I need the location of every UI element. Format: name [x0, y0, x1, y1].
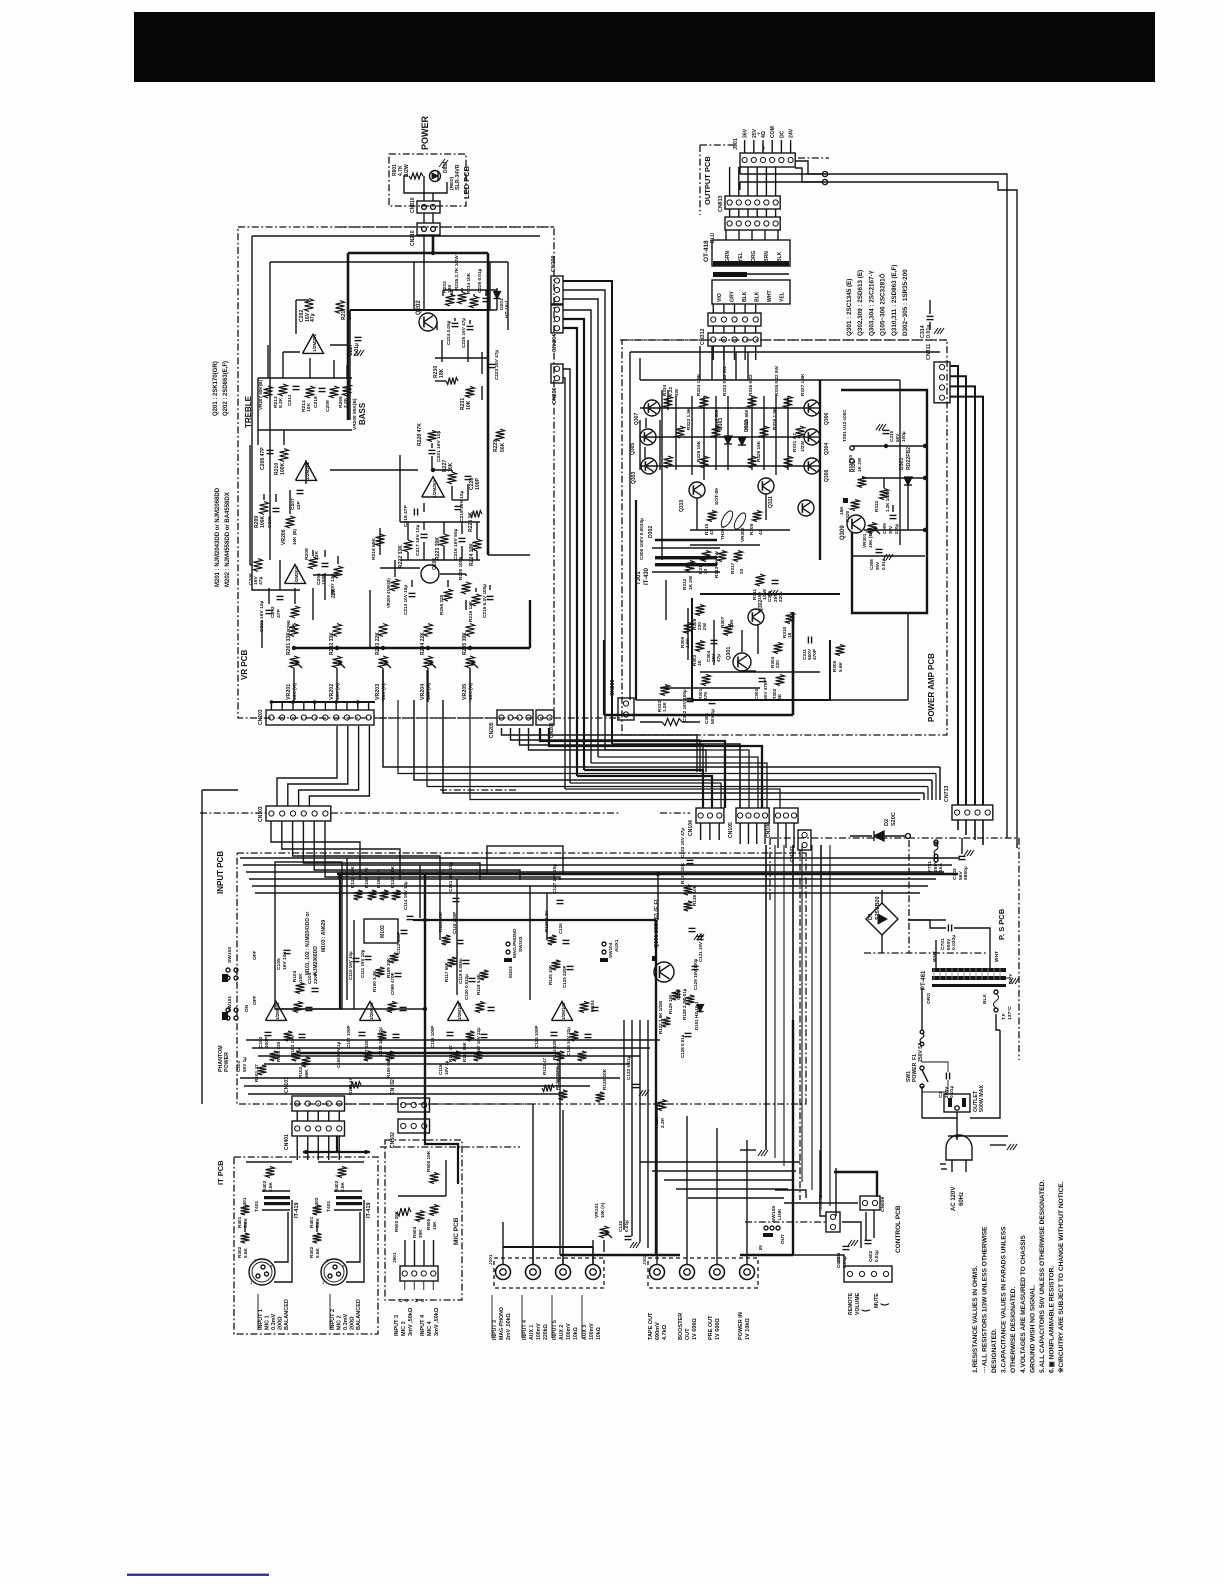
svg-text:VR208 50K(B): VR208 50K(B) [352, 398, 358, 430]
svg-text:220µ: 220µ [778, 591, 783, 602]
svg-text:GRN: GRN [725, 251, 731, 263]
svg-text:C305: C305 [767, 590, 772, 602]
svg-text:10kΩ: 10kΩ [596, 1327, 602, 1340]
svg-text:CN312: CN312 [700, 328, 706, 345]
svg-text:100µ: 100µ [901, 431, 906, 442]
svg-text:IT-430: IT-430 [644, 567, 650, 585]
svg-text:10K (A): 10K (A) [292, 683, 298, 700]
svg-text:1.2K 1/2W: 1.2K 1/2W [885, 490, 890, 512]
svg-text:C101: C101 [236, 1060, 241, 1072]
svg-text:C112 680P: C112 680P [396, 932, 401, 954]
svg-text:J901: J901 [733, 138, 739, 150]
svg-text:C105: C105 [276, 958, 282, 970]
svg-text:R402: R402 [237, 1246, 242, 1258]
svg-text:18: 18 [787, 632, 792, 638]
svg-text:DC: DC [779, 130, 785, 138]
svg-text:22µ: 22µ [296, 1048, 301, 1056]
svg-text:ON: ON [244, 1004, 249, 1012]
svg-text:R305: R305 [832, 660, 837, 672]
svg-text:R323 1.5K: R323 1.5K [686, 407, 691, 430]
svg-text:CN103: CN103 [258, 806, 264, 822]
svg-text:CN206: CN206 [552, 387, 558, 404]
svg-text:R222 33K: R222 33K [398, 545, 404, 568]
svg-text:137°C: 137°C [1007, 1006, 1013, 1020]
svg-text:R127 1.8K 1/2W: R127 1.8K 1/2W [658, 1000, 663, 1034]
svg-text:10K: 10K [298, 973, 303, 982]
svg-text:100K: 100K [280, 463, 286, 475]
svg-text:C103 16V: C103 16V [290, 1034, 295, 1056]
svg-text:SW102: SW102 [227, 947, 233, 963]
svg-text:RD22FB2: RD22FB2 [906, 447, 912, 470]
svg-text:CN106: CN106 [766, 822, 772, 838]
svg-text:OFF: OFF [252, 995, 257, 1005]
svg-text:10kΩ: 10kΩ [573, 1327, 579, 1340]
svg-text:BLK: BLK [755, 291, 761, 302]
svg-text:Q310,311 : 2SD863 (E,F): Q310,311 : 2SD863 (E,F) [891, 265, 898, 336]
svg-text:1K 2W: 1K 2W [688, 575, 693, 590]
svg-text:R331 4.7: R331 4.7 [792, 433, 797, 452]
svg-text:VR205: VR205 [462, 684, 468, 700]
svg-text:C223 16V 47µ: C223 16V 47µ [494, 350, 499, 380]
svg-text:R321: R321 [851, 460, 856, 472]
svg-text:POWER: POWER [420, 115, 430, 150]
svg-text:C211: C211 [287, 394, 293, 406]
svg-text:CN101: CN101 [284, 1077, 290, 1093]
svg-text:5.ALL CAPACITORS 50V UNLESS OT: 5.ALL CAPACITORS 50V UNLESS OTHERWISE DE… [1039, 1180, 1046, 1373]
svg-text:CN810: CN810 [410, 197, 416, 213]
svg-text:VR204: VR204 [420, 684, 426, 700]
svg-text:15K: 15K [839, 506, 844, 515]
svg-text:R103 220: R103 220 [276, 1041, 281, 1062]
svg-text:C121 16V 10µ: C121 16V 10µ [448, 862, 453, 892]
svg-text:AUX 3: AUX 3 [582, 1325, 588, 1340]
svg-text:AUX 2: AUX 2 [559, 1325, 565, 1340]
svg-text:OFF: OFF [252, 950, 257, 960]
svg-text:3mV ,50kΩ: 3mV ,50kΩ [434, 1307, 440, 1336]
svg-text:Q309: Q309 [840, 525, 846, 540]
svg-text:C701: C701 [940, 938, 946, 950]
svg-text:VR203: VR203 [375, 684, 381, 700]
svg-text:10K (B): 10K (B) [292, 528, 297, 545]
svg-text:R131 10K: R131 10K [680, 862, 685, 884]
svg-text:5W: 5W [674, 388, 679, 396]
svg-text:OUTPUT PCB: OUTPUT PCB [703, 156, 712, 205]
svg-text:470P: 470P [812, 649, 817, 660]
svg-text:T.F: T.F [1001, 1013, 1007, 1020]
svg-text:SW103: SW103 [518, 936, 523, 952]
svg-text:R402: R402 [309, 1246, 314, 1258]
svg-text:5.6K: 5.6K [243, 1247, 248, 1258]
svg-text:R113 47: R113 47 [448, 1045, 453, 1062]
svg-text:50V 1µ: 50V 1µ [242, 1057, 247, 1072]
svg-text:MIC PCB: MIC PCB [453, 1217, 460, 1245]
svg-text:IT PCB: IT PCB [216, 1160, 225, 1185]
svg-text:BALANCED: BALANCED [356, 1299, 362, 1330]
svg-text:POWER: POWER [224, 1052, 230, 1072]
svg-text:C118 220P: C118 220P [452, 912, 457, 934]
svg-text:R329 15K: R329 15K [756, 440, 761, 462]
svg-text:BRN: BRN [764, 251, 770, 262]
svg-text:C102: C102 [258, 1036, 263, 1048]
svg-text:10K: 10K [466, 400, 472, 410]
svg-text:D2: D2 [884, 819, 890, 826]
svg-text:Q301: Q301 [726, 647, 732, 660]
svg-text:100K: 100K [260, 516, 266, 528]
svg-text:VR301: VR301 [862, 533, 867, 548]
svg-text:C602: C602 [868, 1250, 873, 1262]
svg-text:50V 1µ: 50V 1µ [710, 709, 715, 724]
svg-text:C308: C308 [869, 559, 874, 570]
svg-text:0.01µ: 0.01µ [874, 1250, 879, 1262]
svg-text:C205: C205 [267, 516, 273, 528]
svg-text:50V: 50V [895, 433, 900, 442]
svg-text:R336 0.22: R336 0.22 [748, 374, 753, 396]
svg-text:1K 2W: 1K 2W [857, 457, 862, 472]
svg-text:TH301: TH301 [720, 526, 725, 540]
svg-text:10K (B): 10K (B) [868, 531, 873, 548]
svg-text:J401: J401 [242, 1197, 247, 1208]
svg-text:C111 16V 10µ: C111 16V 10µ [360, 949, 365, 978]
svg-text:OUT: OUT [685, 1328, 691, 1340]
svg-text:D302~305 : 1SR35-200: D302~305 : 1SR35-200 [902, 269, 909, 336]
svg-text:R403: R403 [334, 1180, 339, 1192]
svg-text:M202 : NJM4558DD or BA4558DX: M202 : NJM4558DD or BA4558DX [225, 492, 231, 587]
svg-text:CN401: CN401 [284, 1134, 290, 1150]
svg-text:Q305: Q305 [630, 443, 636, 455]
svg-text:CN607: CN607 [818, 1194, 824, 1210]
svg-text:200Ω: 200Ω [278, 1316, 284, 1330]
svg-text:R234 10K: R234 10K [466, 272, 471, 294]
svg-text:VR207 50K(B): VR207 50K(B) [258, 379, 263, 410]
svg-text:50V 470P: 50V 470P [763, 679, 768, 700]
svg-text:R223 39K: R223 39K [435, 537, 441, 560]
svg-text:C115: C115 [438, 1064, 443, 1075]
svg-text:1V 600Ω: 1V 600Ω [692, 1318, 698, 1340]
svg-text:R114 56K: R114 56K [462, 1041, 467, 1062]
svg-text:C208 47P: C208 47P [260, 447, 266, 470]
svg-text:R104: R104 [292, 970, 297, 982]
svg-text:CN713: CN713 [944, 785, 950, 802]
svg-text:15A: 15A [938, 863, 944, 872]
svg-text:TAPE OUT: TAPE OUT [648, 1312, 654, 1340]
svg-text:Q105~306 2SC3281Ō: Q105~306 2SC3281Ō [879, 273, 887, 336]
svg-text:R312: R312 [682, 578, 687, 590]
svg-text:MIC 3: MIC 3 [401, 1321, 407, 1336]
svg-text:VR PCB: VR PCB [240, 650, 249, 680]
svg-text:C292: C292 [270, 606, 276, 618]
svg-text:OUT: OUT [780, 1234, 785, 1244]
svg-text:BLK: BLK [982, 993, 988, 1004]
svg-text:C128 0.01µ: C128 0.01µ [680, 1034, 685, 1058]
svg-text:R504: R504 [412, 1226, 417, 1238]
svg-text:···ALL RESISTORS 1/3W UNLESS O: ···ALL RESISTORS 1/3W UNLESS OTHERWISE [982, 1226, 989, 1373]
svg-text:(: ( [879, 1303, 889, 1306]
svg-text:MIC 2: MIC 2 [337, 1315, 343, 1330]
svg-text:IT-419: IT-419 [366, 1202, 372, 1218]
svg-text:SLR-34VR: SLR-34VR [455, 164, 461, 190]
svg-text:220µ: 220µ [894, 523, 899, 534]
svg-text:C131 16V 47µ: C131 16V 47µ [698, 933, 703, 962]
svg-text:0.033µ: 0.033µ [951, 935, 957, 950]
svg-text:C133 16V 47µ: C133 16V 47µ [680, 828, 685, 858]
svg-text:1/2M102: 1/2M102 [561, 1002, 566, 1020]
svg-text:Q202: Q202 [416, 300, 422, 315]
svg-text:1.RESISTANCE VALUES IN OHMS.: 1.RESISTANCE VALUES IN OHMS. [972, 1265, 979, 1373]
svg-text:1/2M201: 1/2M201 [294, 566, 299, 585]
svg-text:POWER IN: POWER IN [738, 1312, 744, 1340]
svg-text:MAG·PHONO: MAG·PHONO [499, 1307, 505, 1340]
svg-text:R121 220K: R121 220K [555, 1066, 560, 1090]
svg-text:C216 16V 50µ: C216 16V 50µ [453, 528, 459, 560]
svg-text:VR201: VR201 [286, 684, 292, 700]
svg-text:CONTROL PCB: CONTROL PCB [895, 1205, 902, 1253]
svg-text:M103 : AN629: M103 : AN629 [321, 919, 327, 952]
svg-text:R325 15K: R325 15K [696, 440, 701, 462]
svg-text:R307: R307 [720, 616, 725, 628]
svg-text:R120 10K: R120 10K [602, 1068, 607, 1090]
svg-text:YEL: YEL [780, 292, 786, 302]
svg-text:R401: R401 [237, 1216, 242, 1228]
svg-text:33: 33 [703, 568, 708, 574]
svg-text:ORG: ORG [926, 993, 932, 1004]
svg-text:5.6K: 5.6K [315, 1247, 320, 1258]
svg-text:R235 2.7K 1/2W: R235 2.7K 1/2W [454, 255, 459, 290]
svg-text:C099 470P: C099 470P [390, 972, 395, 995]
svg-text:WHT: WHT [767, 290, 773, 302]
svg-text:M101, 102 : NJM2043DD or: M101, 102 : NJM2043DD or [305, 912, 311, 975]
svg-text:1K: 1K [697, 659, 702, 666]
svg-text:INPUT 5: INPUT 5 [552, 1320, 558, 1340]
svg-text:15K: 15K [432, 1221, 437, 1230]
svg-text:3mV ,50kΩ: 3mV ,50kΩ [408, 1307, 414, 1336]
svg-text:10K (A): 10K (A) [468, 683, 474, 700]
svg-text:R205 39K: R205 39K [462, 632, 468, 655]
svg-text:47µ: 47µ [716, 654, 721, 662]
svg-text:R106 56K: R106 56K [386, 1057, 391, 1078]
svg-text:100P: 100P [264, 1037, 269, 1048]
svg-text:1/2M101: 1/2M101 [275, 1002, 280, 1020]
svg-text:C213 10V 10µ: C213 10V 10µ [403, 585, 408, 615]
svg-text:C108 16V 22µ: C108 16V 22µ [378, 1027, 383, 1056]
svg-text:C217 16V 10µ: C217 16V 10µ [415, 524, 421, 556]
svg-text:VIO: VIO [717, 293, 723, 302]
svg-text:C119 0.056µ: C119 0.056µ [458, 958, 463, 984]
svg-text:1/2W: 1/2W [404, 164, 410, 176]
svg-text:C125 220P: C125 220P [562, 965, 567, 988]
svg-text:R503 39K: R503 39K [394, 1210, 399, 1232]
svg-text:C225 16V 47µ: C225 16V 47µ [461, 318, 466, 348]
svg-text:10K (A): 10K (A) [600, 1202, 605, 1218]
svg-text:47K: 47K [703, 691, 708, 700]
svg-text:R208: R208 [304, 548, 310, 560]
svg-text:C107 100P: C107 100P [346, 1025, 351, 1048]
svg-text:100mV: 100mV [536, 1323, 542, 1340]
svg-text:C126: C126 [558, 923, 563, 934]
svg-text:+: + [757, 132, 761, 138]
svg-text:2mV ,50kΩ: 2mV ,50kΩ [506, 1313, 512, 1340]
svg-text:10K (A): 10K (A) [381, 683, 387, 700]
svg-text:24V: 24V [789, 128, 795, 138]
svg-text:R150 1K: R150 1K [376, 869, 381, 888]
svg-text:CN104: CN104 [688, 820, 694, 836]
svg-text:C106 50V 1µ: C106 50V 1µ [336, 1041, 341, 1068]
svg-text:BOOSTER: BOOSTER [678, 1313, 684, 1340]
svg-text:C123 100P: C123 100P [534, 1025, 539, 1048]
svg-text:BALANCED: BALANCED [284, 1299, 290, 1330]
svg-text:56K: 56K [304, 1069, 309, 1078]
svg-text:Q311: Q311 [768, 496, 774, 508]
svg-text:0.3mV: 0.3mV [343, 1313, 349, 1330]
svg-text:Q201 : 2SK170(GR): Q201 : 2SK170(GR) [213, 361, 219, 416]
svg-text:33K: 33K [729, 619, 734, 628]
svg-text:R255 220: R255 220 [439, 594, 444, 615]
svg-text:BLK: BLK [742, 291, 748, 302]
svg-text:COM: COM [770, 126, 776, 138]
svg-text:HZ-16-1: HZ-16-1 [504, 300, 510, 318]
svg-text:R100 3.3K: R100 3.3K [372, 970, 377, 992]
svg-text:56K: 56K [500, 442, 506, 452]
svg-text:J101: J101 [488, 1254, 493, 1265]
svg-text:R317: R317 [730, 562, 735, 574]
svg-text:R118 5.6K: R118 5.6K [476, 973, 481, 995]
svg-text:4.7kΩ: 4.7kΩ [662, 1324, 668, 1340]
svg-text:C224 0.05µ: C224 0.05µ [446, 320, 451, 345]
svg-text:POWER: POWER [912, 1062, 918, 1082]
svg-text:Q303: Q303 [631, 472, 637, 484]
svg-text:VR202: VR202 [329, 684, 335, 700]
svg-text:1/2M201: 1/2M201 [432, 479, 437, 498]
svg-text:R327 1.5K: R327 1.5K [800, 373, 805, 396]
svg-text:M201 : NJM2043DD or NJM2068DD: M201 : NJM2043DD or NJM2068DD [215, 487, 221, 587]
svg-text:TS01 U12-105C: TS01 U12-105C [842, 409, 847, 442]
svg-text:R117 56K: R117 56K [444, 961, 449, 982]
svg-text:M103: M103 [380, 925, 386, 938]
svg-text:C306 100V 0.0033µ: C306 100V 0.0033µ [639, 518, 644, 560]
svg-text:OTHERWISE DESIGNATED.: OTHERWISE DESIGNATED. [1010, 1287, 1017, 1373]
svg-text:3.CAPACITANCE VALUES IN FARADS: 3.CAPACITANCE VALUES IN FARADS UNLESS [1001, 1226, 1008, 1373]
svg-text:Q302: Q302 [758, 600, 764, 612]
svg-text:LED PCB: LED PCB [462, 165, 471, 199]
svg-text:0.3mV: 0.3mV [271, 1313, 277, 1330]
svg-text:AUX1: AUX1 [614, 939, 619, 952]
svg-text:C209: C209 [325, 400, 331, 412]
svg-text:D801: D801 [443, 161, 449, 173]
svg-text:D302: D302 [648, 526, 654, 538]
svg-text:16V 1µ: 16V 1µ [444, 1060, 449, 1075]
svg-text:CN813: CN813 [718, 195, 724, 212]
svg-text:CN209: CN209 [551, 255, 557, 272]
svg-text:POWER AMP PCB: POWER AMP PCB [927, 653, 936, 722]
svg-text:0.01µ: 0.01µ [624, 1220, 629, 1232]
svg-text:220: 220 [775, 660, 780, 668]
svg-text:R320: R320 [845, 510, 850, 522]
svg-text:Q303,304 : 2SC2167-Y: Q303,304 : 2SC2167-Y [868, 269, 875, 336]
svg-text:INPUT 3: INPUT 3 [394, 1315, 400, 1336]
svg-text:GRY: GRY [730, 291, 736, 302]
svg-text:R218 68K: R218 68K [371, 538, 377, 560]
svg-text:Q304: Q304 [824, 443, 830, 455]
svg-text:690mV: 690mV [655, 1322, 661, 1340]
svg-text:C110 16V 10µ: C110 16V 10µ [348, 951, 353, 980]
svg-text:R308: R308 [749, 523, 754, 535]
svg-text:R105 47: R105 47 [348, 1077, 353, 1095]
svg-text:CN105: CN105 [728, 822, 734, 838]
svg-text:1/2M202: 1/2M202 [312, 333, 317, 352]
svg-text:INPUT PCB: INPUT PCB [216, 851, 225, 894]
svg-text:R130 10K: R130 10K [692, 884, 697, 906]
svg-text:R224 10K: R224 10K [469, 543, 475, 566]
svg-text:Q301 : 2SC1345 (E): Q301 : 2SC1345 (E) [846, 279, 853, 336]
svg-text:C302 16V 100µ: C302 16V 100µ [682, 689, 687, 722]
svg-text:T401: T401 [326, 1201, 332, 1212]
svg-text:500W MAX: 500W MAX [979, 1084, 985, 1112]
svg-text:39K: 39K [418, 1229, 423, 1238]
svg-text:WHT: WHT [994, 951, 1000, 962]
svg-text:R202 33K: R202 33K [329, 632, 335, 655]
svg-text:MAG.PHONO: MAG.PHONO [512, 928, 517, 958]
svg-text:SOT-89: SOT-89 [714, 488, 720, 505]
svg-text:1/2W: 1/2W [800, 440, 805, 452]
svg-text:R126 3.3K: R126 3.3K [544, 910, 549, 932]
svg-text:C219: C219 [313, 396, 319, 408]
svg-text:BLK: BLK [777, 251, 783, 262]
svg-text:4.VOLTAGES ARE MEASURED TO CHA: 4.VOLTAGES ARE MEASURED TO CHASSIS [1020, 1235, 1027, 1373]
svg-text:R335 0.22 5W: R335 0.22 5W [774, 365, 779, 396]
svg-text:C116 100P: C116 100P [430, 1026, 435, 1048]
svg-text:47µ: 47µ [258, 577, 264, 585]
svg-text:P. S PCB: P. S PCB [997, 908, 1006, 940]
svg-text:R228 47K: R228 47K [417, 423, 423, 446]
svg-text:10K: 10K [306, 403, 312, 412]
svg-text:VR206: VR206 [281, 529, 287, 545]
svg-text:INPUT 4: INPUT 4 [420, 1314, 426, 1336]
svg-text:INPUT 4: INPUT 4 [522, 1320, 528, 1340]
svg-text:CN205: CN205 [489, 722, 495, 738]
svg-text:AC 120V: AC 120V [951, 1187, 957, 1211]
svg-text:C114 16V 10µ: C114 16V 10µ [403, 881, 408, 910]
svg-text:1.2K: 1.2K [662, 701, 667, 712]
svg-text:0.22: 0.22 [668, 386, 673, 396]
svg-text:J601: J601 [836, 1252, 841, 1263]
svg-text:SW105: SW105 [771, 1206, 777, 1222]
svg-text:CN309: CN309 [610, 679, 616, 696]
svg-text:C310: C310 [889, 430, 894, 442]
svg-text:1/2M102: 1/2M102 [457, 1002, 462, 1020]
svg-text:2.2K: 2.2K [660, 1117, 666, 1128]
svg-text:C303: C303 [754, 688, 759, 700]
svg-text:J501: J501 [392, 1252, 397, 1263]
svg-text:F701: F701 [927, 861, 933, 872]
svg-text:R505: R505 [426, 1218, 431, 1230]
svg-text:T401: T401 [254, 1201, 260, 1212]
svg-text:C117 16V 22µ: C117 16V 22µ [476, 1027, 481, 1056]
svg-text:R401: R401 [309, 1216, 314, 1228]
svg-text:SW104: SW104 [608, 942, 613, 958]
svg-text:1V 600Ω: 1V 600Ω [715, 1318, 721, 1340]
svg-text:C132: C132 [618, 1220, 623, 1232]
svg-text:MIC 4: MIC 4 [427, 1320, 433, 1336]
svg-text:2W: 2W [702, 622, 707, 630]
svg-text:+: + [878, 428, 881, 434]
svg-text:SW101: SW101 [227, 996, 233, 1012]
svg-text:R111 4.7K: R111 4.7K [350, 865, 355, 888]
svg-text:C132 0.01µ: C132 0.01µ [626, 1055, 631, 1080]
svg-text:200Ω: 200Ω [350, 1316, 356, 1330]
svg-text:J402: J402 [314, 1197, 319, 1208]
svg-text:100mV: 100mV [589, 1323, 595, 1340]
svg-text:R107 220: R107 220 [364, 1040, 369, 1060]
svg-text:R201 33K: R201 33K [286, 632, 292, 655]
